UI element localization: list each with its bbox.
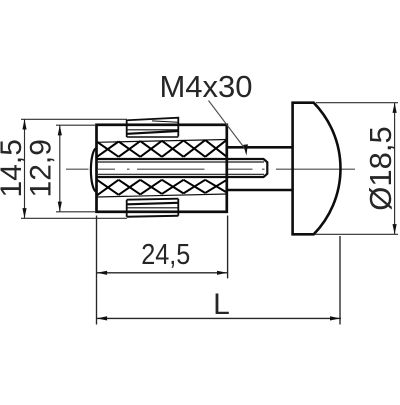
dimension 14,5 (21, 119, 127, 218)
spacer neck cylinder (227, 147, 293, 190)
dimension 24,5 (97, 216, 228, 279)
top knurled band (127, 118, 179, 137)
svg-text:12,9: 12,9 (25, 139, 58, 197)
insert body outline (97, 125, 227, 212)
dimension Ø18,5 (315, 103, 399, 235)
knurl upper zigzag (97, 140, 227, 157)
bottom knurled band (127, 199, 179, 217)
svg-text:L: L (213, 288, 230, 321)
dome head (293, 103, 341, 235)
dimension L (97, 236, 342, 325)
center line (66, 168, 355, 170)
svg-text:Ø18,5: Ø18,5 (363, 126, 398, 210)
knurl lower boundary (97, 194, 227, 197)
knurl upper boundary (97, 140, 227, 143)
screw thread minor lines (98, 162, 264, 174)
insert hole end arc (91, 148, 96, 192)
svg-text:M4x30: M4x30 (159, 69, 252, 104)
svg-text:24,5: 24,5 (141, 239, 190, 271)
dimension 12,9 (56, 125, 95, 212)
knurl lower zigzag (97, 180, 227, 196)
screw M4x30 shaft (98, 159, 268, 177)
